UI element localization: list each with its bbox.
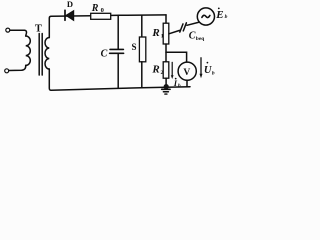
wire secondary bottom to rail bbox=[49, 69, 51, 90]
capacitor C plates bbox=[110, 48, 123, 50]
jog wire to voltmeter bbox=[166, 52, 187, 62]
right branch from rail to R1 bbox=[165, 15, 167, 23]
capacitor C branch lower wire bbox=[117, 54, 119, 88]
svg-text:C: C bbox=[101, 49, 108, 60]
capacitor C branch upper wire bbox=[117, 15, 119, 48]
S element upper wire bbox=[141, 16, 143, 38]
svg-text:R: R bbox=[91, 3, 99, 14]
AC source tilde bbox=[202, 15, 210, 17]
arrowhead of current arrow I_b bbox=[171, 75, 174, 79]
svg-text:V: V bbox=[183, 68, 190, 78]
resistor R0 box bbox=[91, 13, 111, 19]
svg-text:E: E bbox=[215, 9, 223, 21]
ground bars bbox=[162, 88, 170, 90]
svg-text:S: S bbox=[132, 42, 137, 52]
terminal bottom-left bbox=[5, 69, 9, 73]
voltmeter bottom stub bbox=[186, 80, 188, 87]
svg-text:D: D bbox=[67, 0, 73, 9]
svg-text:b: b bbox=[178, 83, 181, 89]
svg-text:R: R bbox=[151, 63, 159, 75]
S element box bbox=[139, 37, 145, 62]
svg-text:1: 1 bbox=[161, 34, 164, 40]
svg-text:beq: beq bbox=[196, 36, 206, 42]
wire secondary top to rail bbox=[49, 16, 51, 37]
svg-text:T: T bbox=[35, 24, 42, 35]
svg-text:2: 2 bbox=[161, 70, 164, 76]
wire R1 bottom to junction bbox=[165, 44, 167, 62]
label I_b with dot bbox=[175, 78, 177, 80]
U_b arrow bbox=[200, 58, 202, 75]
C_beq coupling wire right segment bbox=[187, 22, 199, 25]
wire from top terminal to primary bbox=[10, 30, 27, 36]
transformer T primary winding bbox=[26, 36, 31, 65]
bottom rail bbox=[51, 87, 190, 91]
diode D triangle bbox=[66, 11, 74, 21]
label E_b with dot bbox=[218, 7, 220, 9]
wire from primary to bottom terminal bbox=[9, 65, 26, 70]
svg-text:b: b bbox=[225, 14, 228, 20]
svg-text:b: b bbox=[212, 71, 215, 77]
diode D cathode bar bbox=[64, 10, 66, 20]
C_beq plates bbox=[180, 24, 183, 32]
wire R2 bottom to ground bbox=[165, 78, 167, 89]
AC source circle bbox=[197, 8, 214, 25]
svg-text:R: R bbox=[151, 27, 159, 39]
svg-text:0: 0 bbox=[101, 7, 104, 14]
U_b arrowhead bbox=[200, 74, 203, 79]
terminal top-left bbox=[6, 28, 10, 32]
transformer core bbox=[38, 34, 40, 76]
label U_b with dot bbox=[207, 62, 209, 64]
C_beq coupling wire left segment bbox=[169, 30, 180, 33]
resistor R2 box bbox=[163, 62, 169, 78]
resistor R1 box bbox=[163, 23, 169, 44]
voltmeter circle bbox=[178, 62, 196, 80]
svg-text:C: C bbox=[189, 31, 196, 42]
junction dot at R2/ground bbox=[164, 84, 169, 89]
top rail bbox=[51, 15, 166, 16]
S element lower wire bbox=[141, 62, 143, 88]
transformer T secondary winding bbox=[45, 38, 49, 70]
current arrow I_b beside R2 bbox=[171, 62, 173, 76]
